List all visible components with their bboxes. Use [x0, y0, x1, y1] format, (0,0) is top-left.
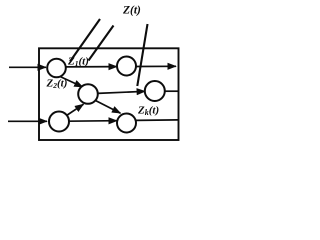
input arrow 1: [9, 66, 46, 68]
svg-text:Z1(t): Z1(t): [67, 56, 89, 69]
wire N6 to right edge: [136, 119, 178, 122]
svg-text:Z2(t): Z2(t): [46, 78, 68, 91]
node N3: [78, 84, 98, 104]
node N1: [47, 59, 66, 78]
wire N4 to right edge: [165, 90, 179, 92]
wire N5 to N6: [68, 120, 117, 123]
wire N5 to N3: [67, 104, 84, 115]
callout line 3 from Z(t) down to node N4 (Zk): [137, 24, 147, 86]
wire N3 to N6: [95, 100, 121, 113]
input arrow 2: [8, 120, 47, 122]
node N4 Zk: [145, 81, 165, 101]
svg-text:Z(t): Z(t): [122, 5, 141, 17]
system box: [39, 48, 179, 140]
wire N2 to right edge: [135, 65, 176, 67]
callout line 2 from Z(t) to node N1 area: [89, 26, 114, 61]
svg-text:Zk(t): Zk(t): [137, 105, 159, 118]
wire N1 to N3: [60, 77, 83, 88]
wire N3 to N4: [98, 91, 146, 93]
callout line 1 from Z(t) to node N1: [70, 19, 100, 62]
wire N1 to N2: [64, 66, 117, 68]
node N6: [117, 114, 136, 133]
node N5: [49, 112, 69, 132]
node N2: [117, 57, 136, 76]
